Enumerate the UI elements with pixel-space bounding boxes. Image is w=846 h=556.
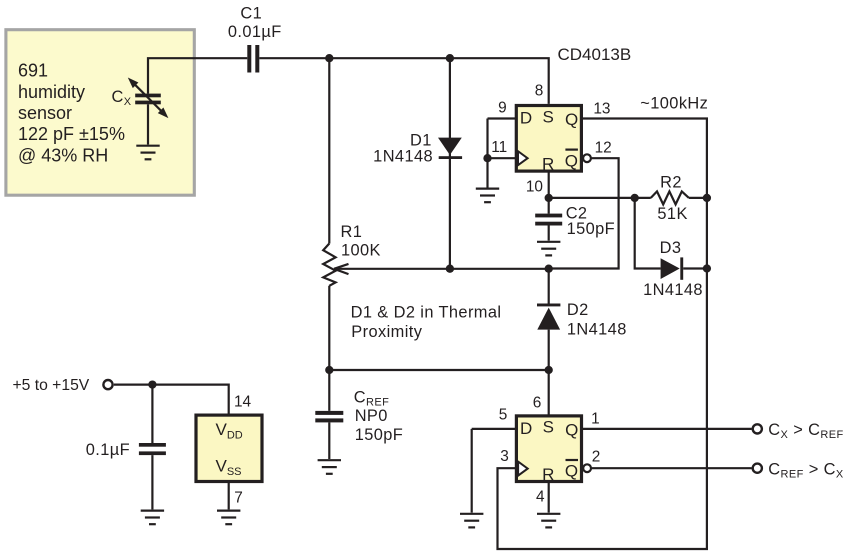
svg-text:D2: D2 — [567, 301, 589, 319]
svg-text:CREF > CX: CREF > CX — [768, 460, 844, 480]
wire D2 to FF2 S pin 6 — [548, 330, 550, 416]
svg-text:150pF: 150pF — [567, 220, 615, 238]
svg-text:R: R — [542, 155, 554, 174]
svg-text:2: 2 — [592, 449, 601, 466]
wire R1 bottom leg to CREF node — [328, 286, 330, 411]
capacitor CX (variable, in sensor) — [112, 78, 169, 119]
wire C2 to ground — [548, 226, 550, 241]
svg-text:8: 8 — [535, 83, 544, 100]
U1a label Qbar — [565, 150, 578, 171]
terminal CREF > CX — [753, 464, 762, 473]
node D1 bottom junction — [446, 265, 454, 273]
svg-text:14: 14 — [234, 394, 252, 411]
wire bottom rail (wiper to D2 node) — [334, 268, 549, 270]
node junction D1 top — [446, 54, 454, 62]
capacitor CREF NP0 150pF — [315, 389, 403, 445]
wire pin10 node to R2 — [549, 197, 651, 199]
svg-text:1N4148: 1N4148 — [567, 320, 627, 338]
svg-text:Q: Q — [565, 110, 578, 129]
wire pin 7 to ground — [228, 482, 230, 510]
svg-text:Q: Q — [565, 151, 578, 170]
capacitor C1 0.01uF — [228, 5, 282, 73]
svg-text:122 pF ±15%: 122 pF ±15% — [18, 124, 125, 144]
svg-text:11: 11 — [491, 139, 507, 156]
svg-text:1N4148: 1N4148 — [643, 281, 703, 299]
wire pin 9 D input — [488, 117, 517, 119]
sensor box (691 humidity sensor) — [6, 30, 194, 196]
ground (pin 11) — [476, 189, 499, 203]
wire pin 5 D input — [472, 428, 517, 430]
wire CX top to C1 — [148, 58, 247, 93]
node D2/pin6 junction — [545, 366, 553, 374]
svg-text:Q: Q — [565, 462, 578, 481]
ground (VSS pin 7) — [217, 511, 240, 525]
U1b Qbar bubble pin 2 — [583, 464, 591, 472]
svg-text:C1: C1 — [240, 5, 262, 23]
svg-text:691: 691 — [18, 61, 48, 81]
svg-text:0.1µF: 0.1µF — [86, 441, 130, 459]
resistor R2 51K — [651, 174, 707, 224]
wire R2 left node down to D3 — [635, 198, 661, 269]
wire pin 9/11 vertical to ground — [486, 119, 488, 188]
svg-text:6: 6 — [533, 395, 542, 412]
svg-text:Proximity: Proximity — [351, 323, 422, 341]
svg-text:0.01µF: 0.01µF — [228, 23, 282, 41]
U1a Qbar bubble pin 12 — [583, 154, 591, 162]
svg-text:D: D — [520, 108, 532, 127]
ground (pin 4) — [537, 514, 560, 528]
node junction C1/R1 — [325, 54, 333, 62]
svg-text:D1 & D2 in Thermal: D1 & D2 in Thermal — [351, 304, 502, 322]
ground (pin 5) — [460, 514, 483, 528]
terminal CX > CREF — [753, 424, 762, 433]
node R2 left junction — [631, 194, 639, 202]
svg-text:4: 4 — [536, 489, 545, 506]
svg-text:S: S — [543, 418, 554, 437]
capacitor 0.1uF — [86, 441, 166, 459]
svg-text:R2: R2 — [660, 174, 682, 192]
svg-text:12: 12 — [595, 139, 612, 156]
wire pin 11 clock stub — [488, 157, 518, 159]
wire 0.1uF to ground — [151, 455, 153, 509]
wire CX bottom to ground — [147, 104, 149, 144]
svg-text:D3: D3 — [660, 239, 682, 257]
U1a clock triangle — [518, 151, 528, 165]
wire pin 2 Qbar output — [591, 467, 752, 469]
wire CREF rail — [329, 369, 548, 371]
svg-text:1N4148: 1N4148 — [373, 148, 433, 166]
wire supply to pin 14 — [114, 385, 229, 416]
flip-flop U1b (CD4013B half 2) — [516, 416, 581, 482]
wire pin 10 / R to C2 — [548, 171, 550, 214]
node D3 cathode junction — [703, 264, 711, 272]
node CREF left junction — [325, 366, 333, 374]
svg-text:~100kHz: ~100kHz — [640, 95, 708, 113]
wire Q pin13 right, down, bottom, up to pin 3 — [498, 119, 707, 550]
flip-flop U1a (CD4013B half 1) — [516, 106, 581, 172]
svg-text:7: 7 — [234, 490, 243, 507]
node 0.1uF junction — [148, 380, 156, 388]
svg-text:13: 13 — [593, 101, 610, 118]
wire pin 4 R to ground — [548, 482, 550, 513]
svg-text:10: 10 — [526, 178, 543, 195]
svg-text:3: 3 — [500, 448, 509, 465]
svg-text:humidity: humidity — [18, 82, 85, 102]
wire C1 to FF1 S pin (top rail) — [259, 58, 548, 104]
wire Qbar pin12 to bottom rail — [549, 158, 619, 268]
wiper arrow of R1 — [334, 264, 349, 274]
node D2 top junction — [545, 265, 553, 273]
node R2 right junction — [703, 194, 711, 202]
diode D1 1N4148 — [373, 131, 462, 165]
svg-text:5: 5 — [499, 407, 508, 424]
wire D1 branch vertical — [449, 58, 451, 268]
svg-text:51K: 51K — [657, 205, 687, 223]
U1b label Qbar — [565, 460, 578, 481]
IC power box VDD/VSS — [196, 415, 262, 481]
terminal +5 to +15V — [103, 380, 112, 389]
resistor R1 100K (potentiometer body) — [323, 223, 381, 286]
svg-text:@ 43% RH: @ 43% RH — [18, 145, 108, 165]
label D1 & D2 thermal note — [351, 304, 502, 342]
svg-text:R: R — [542, 465, 554, 484]
ground (0.1uF) — [141, 511, 164, 525]
node pin11 junction — [483, 154, 491, 162]
wire 0.1uF top — [151, 385, 153, 443]
svg-text:CD4013B: CD4013B — [558, 45, 632, 64]
wire D2 branch top — [548, 269, 550, 304]
svg-text:S: S — [543, 107, 554, 126]
svg-text:100K: 100K — [341, 242, 381, 260]
wire R1 top leg — [328, 58, 330, 243]
svg-text:NP0: NP0 — [355, 407, 388, 425]
svg-text:+5 to +15V: +5 to +15V — [13, 377, 90, 394]
ground (C2) — [537, 242, 560, 256]
svg-text:1: 1 — [591, 410, 600, 427]
node pin10/C2 junction — [545, 194, 553, 202]
svg-text:D: D — [520, 419, 532, 438]
svg-text:R1: R1 — [341, 223, 363, 241]
diode D3 1N4148 — [643, 239, 707, 299]
wire pin 5 to ground — [471, 429, 473, 513]
U1b clock triangle — [518, 462, 528, 476]
svg-text:9: 9 — [498, 99, 507, 116]
svg-text:Q: Q — [565, 420, 578, 439]
ground (sensor) — [136, 146, 159, 160]
wire pin 1 Q output — [582, 428, 752, 430]
diode D2 1N4148 — [537, 301, 627, 338]
wire CREF to ground — [328, 422, 330, 459]
svg-text:150pF: 150pF — [355, 426, 403, 444]
ground (CREF) — [318, 460, 341, 474]
svg-text:sensor: sensor — [18, 103, 72, 123]
capacitor C2 150pF — [535, 205, 615, 239]
